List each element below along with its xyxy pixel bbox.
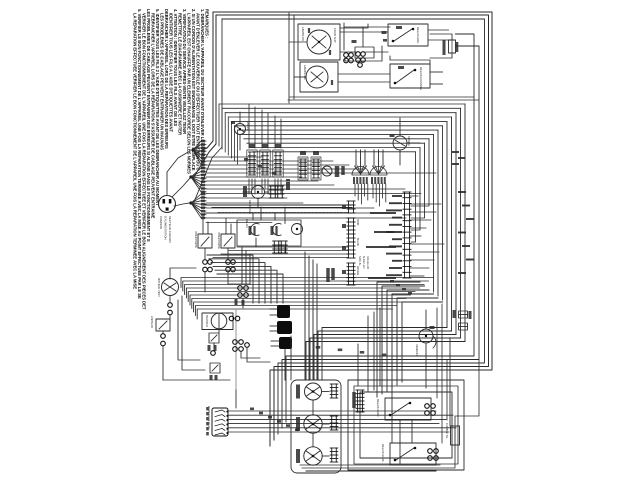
svg-text:SONDE: SONDE — [407, 136, 411, 146]
wire L2 supply loop — [216, 15, 489, 440]
svg-text:TRANSFO: TRANSFO — [205, 315, 208, 327]
mid-left cluster wiring — [178, 300, 200, 360]
wire corner set mid — [207, 255, 253, 303]
convection fan motor — [162, 279, 179, 296]
wire burner internal — [312, 400, 314, 415]
svg-text:BLANC-RO: BLANC-RO — [362, 256, 365, 268]
wire supply drop left 2 — [194, 15, 216, 177]
relay switch D marks — [210, 375, 213, 380]
svg-text:RELAIS SURF.: RELAIS SURF. — [376, 399, 380, 417]
wire TB riser — [235, 390, 237, 408]
hi-limit contacts — [161, 334, 166, 339]
oven lamp B — [306, 66, 328, 88]
switch bank risers — [248, 104, 250, 148]
terminal labels top middle — [352, 40, 357, 43]
oven relay K8 — [251, 223, 259, 235]
wire labels right bundle — [458, 191, 466, 193]
transformer box — [202, 313, 233, 330]
oven lamp A — [307, 30, 331, 54]
burner combs — [330, 384, 338, 398]
svg-text:BLANC: BLANC — [356, 238, 359, 247]
svg-text:SECTEUR 120/240V: SECTEUR 120/240V — [168, 216, 172, 243]
wire bus clock-to-J1 — [237, 246, 348, 248]
bake relay K2 — [390, 64, 430, 88]
micro fuse B — [459, 323, 468, 330]
wire right vertical bundle — [464, 104, 466, 342]
wire labels fan runs — [244, 158, 248, 161]
surface connector dark strip — [356, 390, 364, 412]
wire P3 drop — [284, 349, 286, 380]
switch bank tails — [248, 179, 250, 194]
contact cluster — [233, 340, 238, 345]
svg-text:INTER PORTE: INTER PORTE — [217, 232, 220, 249]
transformer T1 — [211, 313, 227, 329]
svg-text:INTER PORTE: INTER PORTE — [194, 231, 197, 248]
wire lamp feed risers — [288, 13, 290, 103]
svg-text:NOIR: NOIR — [356, 219, 359, 225]
wire top middle link — [344, 27, 363, 47]
wire to thermal fuse — [455, 360, 479, 425]
rotary switch B — [370, 167, 387, 176]
wire TB1 runs — [228, 410, 436, 412]
svg-text:LAMPE DU: LAMPE DU — [301, 27, 305, 41]
door switch contacts — [203, 260, 208, 265]
connector cluster top middle A — [344, 53, 349, 58]
door lock motor — [419, 329, 433, 343]
wire labels lower bus — [316, 346, 321, 349]
indicator lamp C — [292, 224, 303, 235]
wire vertical quad — [304, 252, 306, 380]
svg-text:ROUGE: ROUGE — [356, 266, 359, 276]
snubber label — [443, 40, 446, 55]
oven lamp box A — [298, 24, 340, 60]
note text block (French service remarks) — [133, 9, 210, 310]
surface relay K7 — [390, 443, 436, 465]
bottom-right inner box 2 — [360, 392, 452, 458]
wire bus line B — [205, 212, 345, 214]
wire lower returns into burner group — [306, 342, 465, 381]
wire supply drop left 3 — [194, 19, 222, 202]
svg-text:RELAIS CUISSON: RELAIS CUISSON — [419, 67, 423, 90]
indicator combs — [273, 241, 281, 253]
rotary switch risers — [355, 150, 357, 166]
wire clock taps — [243, 191, 252, 193]
wire supply drop left 1 — [196, 12, 213, 153]
connector cluster top middle B — [356, 52, 361, 57]
broil relay K1 — [388, 24, 428, 46]
harness plug P3 (black connector) — [277, 305, 290, 318]
K7 contacts — [428, 449, 433, 454]
wire fuse bottom run — [302, 445, 455, 468]
svg-text:FOUR SUP.: FOUR SUP. — [333, 28, 337, 43]
junction box top middle — [355, 47, 374, 58]
K6 contacts — [425, 404, 430, 409]
connector strip J1 — [347, 201, 355, 213]
P2 pin labels — [392, 195, 402, 197]
wire dashed line — [218, 212, 348, 214]
wire labels mid bus — [390, 280, 394, 283]
svg-text:LIMITEUR: LIMITEUR — [150, 316, 153, 328]
bottom-right inner box — [354, 386, 458, 464]
wire labels TB runs — [250, 408, 254, 411]
wire bottom bus — [300, 464, 440, 466]
indicator lamp — [322, 166, 332, 176]
oven relay K9 — [273, 223, 281, 235]
door switch B — [221, 234, 235, 248]
surface switch bank combs — [247, 150, 257, 177]
power plug P1 (line cord) — [159, 196, 176, 213]
wire relay to combs — [428, 29, 449, 31]
wire fan risers — [218, 104, 220, 146]
wire plug leads — [167, 151, 190, 196]
clock blobs — [243, 186, 247, 197]
oven lamp box B — [300, 62, 338, 92]
surface elements (3 burners) — [305, 383, 322, 400]
wire labels right bundle upper — [452, 151, 459, 153]
wire top return loop A — [286, 34, 474, 422]
svg-text:RELAIS GRIL: RELAIS GRIL — [416, 27, 420, 44]
wire sensor taps — [399, 118, 401, 136]
wire top inner loops — [345, 46, 382, 61]
svg-text:NOIR-BL: NOIR-BL — [358, 256, 361, 266]
relay switch D — [210, 363, 220, 373]
transformer contacts — [229, 316, 234, 321]
svg-text:ROUGE-NO: ROUGE-NO — [366, 256, 369, 269]
door switch A — [198, 234, 212, 248]
wire N supply loop — [222, 19, 485, 434]
wire bus middle main — [181, 278, 433, 288]
fan motor contacts — [168, 303, 173, 308]
terminal block TB1 — [212, 408, 228, 436]
rotary switch tails — [354, 184, 356, 196]
burner group box — [291, 380, 341, 473]
wire L1 supply outer loop — [213, 12, 492, 446]
rotary switch A — [352, 167, 369, 176]
svg-text:LA REPARATION EFFECTUEE VERIFI: LA REPARATION EFFECTUEE VERIFIER LE BON … — [133, 13, 138, 289]
wire P2 stubs right — [410, 195, 419, 197]
wire oven light taps — [239, 112, 241, 124]
wire dark bus pair — [205, 204, 352, 206]
wire lamp to relay wiring — [340, 31, 388, 33]
P2 long labels — [370, 212, 396, 214]
snubber component — [449, 40, 456, 53]
splice fans with wire labels — [191, 148, 194, 151]
svg-text:MOTEUR VENT.: MOTEUR VENT. — [157, 278, 161, 298]
relay cluster box — [237, 220, 301, 246]
wire mid staircase to lower section — [402, 302, 443, 382]
wire top horizontal feeder bus — [219, 103, 465, 105]
svg-text:D'ALIMENTATION: D'ALIMENTATION — [164, 216, 168, 240]
clock combs — [269, 186, 277, 198]
wire bottom risers — [436, 308, 438, 398]
oven light — [235, 124, 246, 135]
wire top return loop B — [282, 46, 479, 428]
relay switch C — [209, 333, 219, 343]
wire snubber loop — [430, 34, 452, 40]
thermal fuse F1 — [451, 426, 460, 445]
indicator labels — [335, 166, 340, 177]
surface relay K6 — [385, 398, 431, 420]
svg-text:LAMPE INF.: LAMPE INF. — [303, 65, 307, 80]
clock timer — [252, 186, 265, 199]
svg-text:FUSIBLE TH.: FUSIBLE TH. — [445, 423, 449, 439]
oven sensor — [393, 136, 407, 150]
svg-text:RELAIS: RELAIS — [245, 219, 248, 228]
wire door lock leads — [433, 337, 458, 339]
svg-text:VERROU: VERROU — [415, 344, 419, 356]
contact cluster B — [238, 286, 243, 291]
relay switch C marks — [208, 345, 211, 351]
wire cluster B risers — [241, 248, 243, 285]
wire door switch leads — [202, 216, 204, 234]
svg-text:CORDON: CORDON — [159, 216, 163, 229]
wire splice fan horizontal runs — [206, 156, 262, 158]
blob pair mid — [326, 268, 330, 282]
bottom-right outer box — [348, 380, 464, 470]
micro fuse A — [459, 311, 468, 318]
wire relay risers — [252, 213, 254, 220]
svg-text:RELAIS SURF.: RELAIS SURF. — [381, 444, 385, 462]
hi-limit switch — [156, 319, 170, 331]
harness connector P2 strip — [403, 192, 411, 278]
svg-text:HORLOGE: HORLOGE — [248, 200, 252, 214]
